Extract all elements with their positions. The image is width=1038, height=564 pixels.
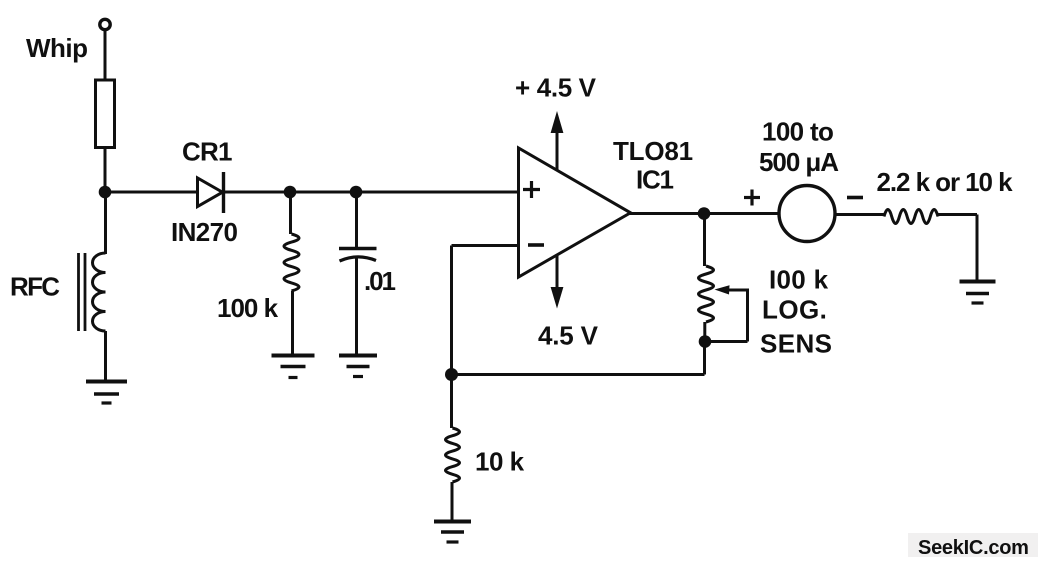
svg-text:10 k: 10 k (475, 447, 525, 477)
power line +4.5V with up arrow (556, 131, 559, 170)
ground below 10k (434, 520, 471, 524)
wire pot bottom to node F (703, 322, 706, 342)
svg-text:+ 4.5 V: + 4.5 V (515, 73, 597, 103)
wire node C down to capacitor (355, 192, 358, 249)
junction node C (.01 top) (350, 186, 363, 199)
svg-text:RFC: RFC (10, 272, 60, 302)
wire resistor to corner (938, 213, 977, 216)
wire terminal to whip element (104, 31, 107, 81)
potentiometer I00k LOG SENS (699, 266, 714, 322)
RFC core lines (77, 253, 80, 331)
resistor 10 k (446, 428, 460, 482)
wire node F down and left (feedback bottom) (703, 342, 706, 375)
meter - polarity mark (847, 196, 863, 200)
power line -4.5V with down arrow (556, 255, 559, 289)
svg-text:IN270: IN270 (171, 217, 238, 247)
svg-text:500 μA: 500 μA (759, 147, 839, 177)
svg-text:100 to: 100 to (762, 117, 833, 147)
ground below capacitor (339, 354, 377, 358)
op-amp - input symbol (528, 243, 544, 247)
op-amp U1 TLO81 triangle (519, 148, 631, 277)
svg-text:I00 k: I00 k (769, 265, 829, 295)
resistor 2.2k or 10k (884, 210, 938, 224)
junction node A (whip/diode/RFC) (99, 186, 112, 199)
svg-text:4.5 V: 4.5 V (538, 321, 599, 351)
meter + polarity mark (744, 196, 760, 199)
ground right output (960, 280, 996, 284)
wire corner down to ground (976, 215, 979, 282)
svg-text:.01: .01 (364, 266, 395, 296)
junction node D (10k top) (445, 368, 458, 381)
wire 100k to ground (291, 291, 294, 356)
svg-text:LOG.: LOG. (762, 295, 827, 325)
wire meter to resistor (835, 213, 884, 216)
wire capacitor to ground (355, 258, 358, 356)
wire diode cathode to op-amp + input (224, 191, 519, 194)
svg-text:SeekIC.com: SeekIC.com (918, 537, 1029, 559)
meter M1 circle (779, 186, 835, 242)
wire node A down to RFC (104, 192, 107, 254)
svg-text:100 k: 100 k (217, 293, 279, 323)
inductor RFC coil (93, 253, 106, 331)
svg-text:IC1: IC1 (636, 165, 674, 195)
ground below 100k (272, 354, 315, 358)
op-amp + input symbol (523, 188, 540, 191)
wire node D to 10k (450, 375, 453, 429)
wire op-amp output to meter (630, 212, 780, 215)
junction node B (100k top) (284, 186, 297, 199)
capacitor .01 bottom plate (curved) (340, 257, 377, 261)
ground below RFC (86, 380, 127, 384)
resistor 100 k (284, 234, 299, 291)
diode CR1 IN270 (198, 178, 223, 207)
wire RFC to ground (104, 331, 107, 382)
svg-text:SENS: SENS (760, 329, 832, 359)
svg-text:TLO81: TLO81 (613, 136, 693, 166)
wiper connection to node F (705, 340, 748, 343)
wire main node A to diode anode (105, 191, 198, 194)
pot wiper arrow (715, 285, 730, 294)
node: whip antenna terminal (100, 19, 110, 29)
wiper connection down (746, 289, 749, 342)
wire 10k to ground (451, 482, 454, 522)
wire whip element to node A (104, 148, 107, 193)
wire node B down to resistor (289, 192, 292, 234)
svg-text:Whip: Whip (26, 33, 88, 63)
wire node E down to pot (703, 214, 706, 267)
wire feedback down to node D (450, 246, 453, 375)
junction node E (output) (698, 207, 711, 220)
whip antenna element (rectangle) (96, 80, 115, 148)
watermark background strip (908, 533, 1038, 557)
wire op-amp inverting input feedback left (452, 244, 519, 247)
capacitor .01 top plate (339, 247, 377, 251)
junction node F (pot bottom) (699, 335, 712, 348)
svg-text:CR1: CR1 (182, 137, 232, 167)
svg-text:2.2 k or 10 k: 2.2 k or 10 k (877, 167, 1014, 197)
